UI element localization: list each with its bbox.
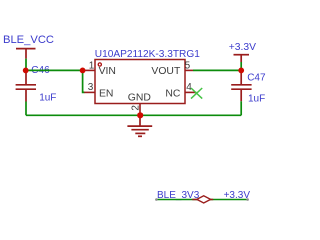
junction dot at +3.3V/C47 bbox=[238, 68, 244, 74]
svg-text:VOUT: VOUT bbox=[151, 66, 181, 77]
svg-text:C47: C47 bbox=[247, 72, 266, 83]
IC U10 body bbox=[95, 60, 185, 104]
svg-text:1uF: 1uF bbox=[248, 94, 265, 105]
svg-text:1uF: 1uF bbox=[39, 92, 56, 103]
svg-text:+3.3V: +3.3V bbox=[229, 42, 256, 53]
svg-text:VIN: VIN bbox=[99, 66, 116, 77]
svg-text:5: 5 bbox=[185, 61, 191, 72]
power symbol BLE_VCC bar bbox=[16, 49, 36, 59]
wire branch to EN bbox=[83, 70, 85, 92]
wire endpoint dot left bbox=[155, 198, 158, 201]
svg-text:1: 1 bbox=[89, 61, 95, 72]
capacitor C47 bbox=[231, 70, 251, 101]
wire ground rail bbox=[26, 114, 241, 116]
pin 2 stub bbox=[139, 104, 141, 116]
pin 4 stub bbox=[185, 91, 196, 93]
wire +3.3V stub bbox=[240, 62, 242, 70]
wire C46 down bbox=[25, 102, 27, 116]
ground bbox=[127, 115, 152, 136]
junction dot at GND rail bbox=[137, 112, 143, 118]
wire VOUT to +3.3V bbox=[193, 69, 241, 71]
svg-text:U10AP2112K-3.3TRG1: U10AP2112K-3.3TRG1 bbox=[95, 49, 200, 60]
off-sheet connector stubs bbox=[192, 199, 213, 201]
pin 1 marker circle bbox=[98, 63, 101, 66]
power symbol +3.3V bar bbox=[234, 55, 250, 62]
wire input horizontal bbox=[26, 69, 84, 71]
wire C47 down bbox=[240, 101, 242, 115]
svg-text:EN: EN bbox=[99, 88, 113, 99]
svg-text:GND: GND bbox=[128, 92, 151, 103]
wire endpoint dot right bbox=[246, 198, 249, 201]
svg-text:NC: NC bbox=[165, 88, 181, 99]
no-connect X on pin 4 bbox=[191, 88, 202, 99]
off-sheet connector diamond bbox=[197, 196, 211, 203]
capacitor C46 bbox=[16, 70, 36, 101]
svg-text:4: 4 bbox=[186, 82, 192, 93]
pin 3 stub bbox=[84, 91, 95, 93]
pin 5 stub bbox=[185, 69, 193, 71]
pin 1 stub bbox=[85, 69, 96, 71]
svg-text:3: 3 bbox=[88, 82, 94, 93]
svg-text:BLE_VCC: BLE_VCC bbox=[3, 34, 54, 46]
wire BLE_3V3 bbox=[157, 199, 248, 201]
svg-text:2: 2 bbox=[131, 105, 142, 111]
wire power stub to junction bbox=[25, 59, 27, 71]
junction dot at branch bbox=[80, 68, 86, 74]
junction dot at power/C46 bbox=[23, 68, 29, 74]
